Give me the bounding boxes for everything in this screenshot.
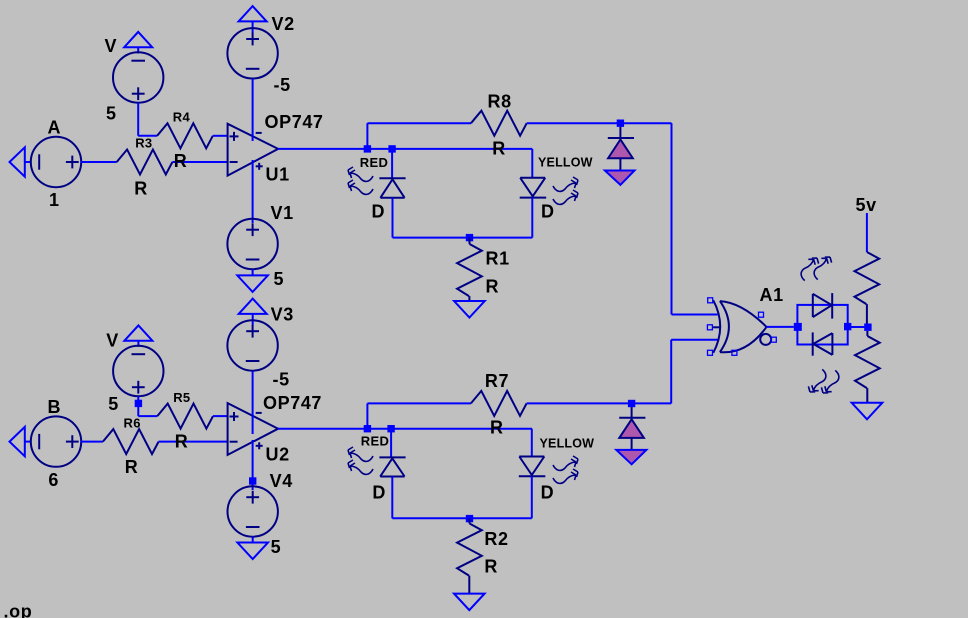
svg-text:A1: A1 bbox=[760, 285, 784, 305]
svg-text:R8: R8 bbox=[488, 91, 512, 111]
wire V3 to U2 positive supply pin bbox=[252, 371, 254, 434]
ground flag below R1 bbox=[454, 301, 485, 318]
svg-text:5v: 5v bbox=[856, 195, 877, 215]
wire up to R8 bbox=[367, 123, 471, 149]
resistor R2 (value R) bbox=[457, 519, 509, 594]
light arrows of output LED pair (down) bbox=[807, 367, 840, 396]
output LED (right-pointing, top) bbox=[813, 293, 832, 319]
svg-text:R: R bbox=[125, 457, 139, 477]
svg-text:5: 5 bbox=[108, 394, 119, 414]
svg-text:R4: R4 bbox=[173, 109, 191, 124]
svg-text:YELLOW: YELLOW bbox=[540, 437, 595, 451]
wire U1 negative supply pin to V1 bbox=[252, 160, 254, 223]
svg-text:V1: V1 bbox=[271, 203, 294, 223]
svg-text:RED: RED bbox=[361, 433, 389, 448]
wire R8 to node bbox=[527, 122, 672, 124]
svg-text:YELLOW: YELLOW bbox=[538, 156, 593, 170]
wire red LED to bottom rail (bottom bank) bbox=[391, 477, 393, 519]
svg-text:5: 5 bbox=[106, 104, 117, 124]
wire down to red LED D bbox=[391, 149, 393, 178]
svg-text:R1: R1 bbox=[486, 249, 510, 269]
svg-text:R7: R7 bbox=[485, 371, 509, 391]
purple bi-color LED 2 bbox=[616, 407, 646, 464]
svg-text:RED: RED bbox=[360, 155, 388, 170]
junction below V (bottom-left) bbox=[135, 400, 142, 407]
wire U1 output rail bbox=[278, 148, 532, 150]
red LED D (bottom bank) bbox=[361, 433, 406, 502]
svg-text:V: V bbox=[106, 331, 119, 351]
voltage source V1 (value 5) bbox=[227, 203, 293, 289]
junction right of LED pair bbox=[844, 323, 851, 330]
svg-text:V2: V2 bbox=[272, 14, 295, 34]
wire R5 to U2 non-inverting input bbox=[213, 415, 228, 417]
svg-text:V4: V4 bbox=[270, 471, 293, 491]
junction on 5v divider bbox=[864, 324, 871, 331]
purple bi-color LED 1 bbox=[605, 127, 635, 185]
wire red LED to bottom rail bbox=[392, 198, 394, 238]
bottom rail of top diode bridge bbox=[393, 237, 533, 239]
wire node to XOR input B bbox=[671, 340, 718, 404]
svg-text:D: D bbox=[541, 202, 555, 222]
wire up to R7 bbox=[367, 403, 471, 428]
lower resistor of output divider bbox=[855, 331, 880, 403]
wire V to R4 bbox=[138, 103, 157, 136]
net flag / input port arrow at source A bbox=[10, 147, 32, 176]
wire U2 output rail bbox=[278, 428, 532, 430]
resistor R7 (value R) bbox=[471, 371, 527, 438]
bottom rail of bottom diode bridge bbox=[392, 517, 532, 519]
svg-text:-5: -5 bbox=[274, 75, 291, 95]
voltage source A (value 1) bbox=[31, 118, 81, 211]
junction at XOR output bbox=[794, 323, 802, 331]
svg-text:D: D bbox=[372, 202, 386, 222]
op-amp U1 OP747 bbox=[228, 112, 324, 185]
junction at purple LED 1 bbox=[617, 120, 624, 127]
svg-text:-5: -5 bbox=[273, 370, 290, 390]
resistor R3 (value R) bbox=[117, 135, 173, 198]
light arrows of red LED D bbox=[348, 167, 373, 194]
wire R4 to U1 non-inverting input bbox=[213, 135, 228, 137]
resistor R1 (value R) bbox=[457, 238, 510, 301]
op-amp U2 OP747 bbox=[228, 393, 322, 464]
svg-text:R: R bbox=[174, 151, 188, 171]
light arrows of output LED pair (up) bbox=[800, 254, 833, 283]
wire R3 to U1 inverting input bbox=[172, 161, 227, 163]
wire up to yellow LED D (bottom) bbox=[531, 429, 533, 457]
voltage source B (value 6) bbox=[31, 397, 81, 490]
junction at U1 output / red LED branch bbox=[388, 145, 395, 152]
voltage source V3 (value -5) bbox=[227, 305, 293, 390]
svg-text:R5: R5 bbox=[173, 390, 190, 405]
spice directive .op bbox=[4, 602, 33, 618]
junction at U2 supply / V4 bbox=[249, 477, 256, 484]
yellow LED D (bottom bank) bbox=[519, 437, 594, 503]
svg-text:1: 1 bbox=[49, 190, 60, 210]
xor gate A1 bbox=[712, 285, 783, 353]
resistor R8 (value R) bbox=[471, 91, 527, 158]
xor unused pin squares bbox=[707, 298, 776, 356]
svg-text:OP747: OP747 bbox=[265, 112, 324, 132]
svg-text:R: R bbox=[490, 418, 504, 438]
ground flag below R2 bbox=[454, 594, 485, 611]
wire down to red LED D (bottom) bbox=[390, 429, 392, 458]
yellow LED D (top bank) bbox=[520, 156, 593, 222]
svg-text:R: R bbox=[175, 432, 189, 452]
light arrows of red LED D (bottom) bbox=[348, 447, 373, 474]
wire XOR output bbox=[767, 326, 794, 328]
junction at purple LED 2 bbox=[628, 400, 635, 407]
wire B to R6 bbox=[81, 441, 103, 443]
upper resistor of output divider bbox=[855, 252, 880, 324]
junction to R2 bbox=[466, 515, 473, 522]
voltage source V4 (value 5) bbox=[228, 471, 293, 557]
svg-text:R: R bbox=[492, 139, 506, 159]
net flag / input port arrow at source B bbox=[10, 427, 32, 456]
wire U2 negative supply pin to V4 bbox=[252, 440, 254, 490]
svg-text:V: V bbox=[105, 36, 118, 56]
voltage source V (value 5, top-left) bbox=[105, 36, 164, 124]
wire R7 to node bbox=[527, 402, 672, 404]
ground flag below divider bbox=[852, 403, 883, 420]
wire V to R5 bbox=[138, 396, 157, 416]
svg-text:.op: .op bbox=[4, 602, 33, 618]
light arrows of yellow LED D bbox=[553, 177, 578, 204]
wire A to R3 bbox=[81, 161, 117, 163]
wire R6 to U2 inverting input bbox=[159, 441, 228, 443]
wire yellow LED to bottom rail (bottom bank) bbox=[531, 476, 533, 518]
wire V2 to U1 positive supply pin bbox=[252, 79, 254, 141]
junction at U2 output / red LED branch bbox=[387, 425, 394, 432]
ground flag below V4 bbox=[237, 537, 268, 560]
wire loop of output LED pair bbox=[797, 305, 847, 345]
svg-text:6: 6 bbox=[48, 470, 59, 490]
svg-text:R: R bbox=[484, 557, 498, 577]
resistor R4 (value R) bbox=[157, 109, 213, 171]
ground flag below V1 bbox=[237, 269, 268, 292]
junction to R1 bbox=[466, 234, 473, 241]
svg-text:R: R bbox=[134, 179, 148, 199]
wire up to yellow LED D bbox=[531, 149, 533, 178]
voltage source V (value 5, bottom-left) bbox=[106, 331, 163, 415]
svg-text:D: D bbox=[541, 483, 555, 503]
svg-text:OP747: OP747 bbox=[263, 393, 322, 413]
red LED D (top bank) bbox=[360, 155, 406, 222]
wire LED pair to 5v divider bbox=[848, 326, 868, 328]
resistor R6 (value R) bbox=[103, 415, 159, 477]
voltage source V2 (value -5) bbox=[227, 14, 294, 95]
net flag above V2 bbox=[239, 6, 267, 33]
svg-text:D: D bbox=[372, 483, 386, 503]
light arrows of yellow LED D (bottom) bbox=[553, 456, 578, 483]
svg-text:5: 5 bbox=[271, 537, 282, 557]
junction at U2 output / R7 branch bbox=[364, 425, 371, 432]
svg-text:R: R bbox=[486, 277, 500, 297]
net flag above V3 bbox=[239, 299, 267, 325]
svg-text:R3: R3 bbox=[135, 135, 152, 150]
wire yellow LED to bottom rail bbox=[531, 198, 533, 238]
output LED (left-pointing, bottom) bbox=[813, 332, 833, 355]
net flag above source V (top-left) bbox=[124, 32, 152, 54]
svg-text:5: 5 bbox=[274, 269, 285, 289]
net label 5v bbox=[856, 195, 877, 215]
svg-text:U2: U2 bbox=[266, 444, 290, 464]
svg-text:V3: V3 bbox=[271, 305, 294, 325]
resistor R5 (value R) bbox=[157, 390, 213, 452]
svg-text:A: A bbox=[48, 118, 62, 138]
svg-text:U1: U1 bbox=[266, 164, 290, 184]
svg-text:R6: R6 bbox=[124, 415, 141, 430]
svg-text:R2: R2 bbox=[484, 529, 508, 549]
wire 5v to upper resistor bbox=[866, 213, 868, 252]
net flag above source V (bottom-left) bbox=[124, 325, 152, 346]
svg-text:B: B bbox=[48, 397, 62, 417]
wire node to XOR input A bbox=[672, 123, 718, 314]
junction at U1 output / R8 branch bbox=[364, 145, 371, 152]
